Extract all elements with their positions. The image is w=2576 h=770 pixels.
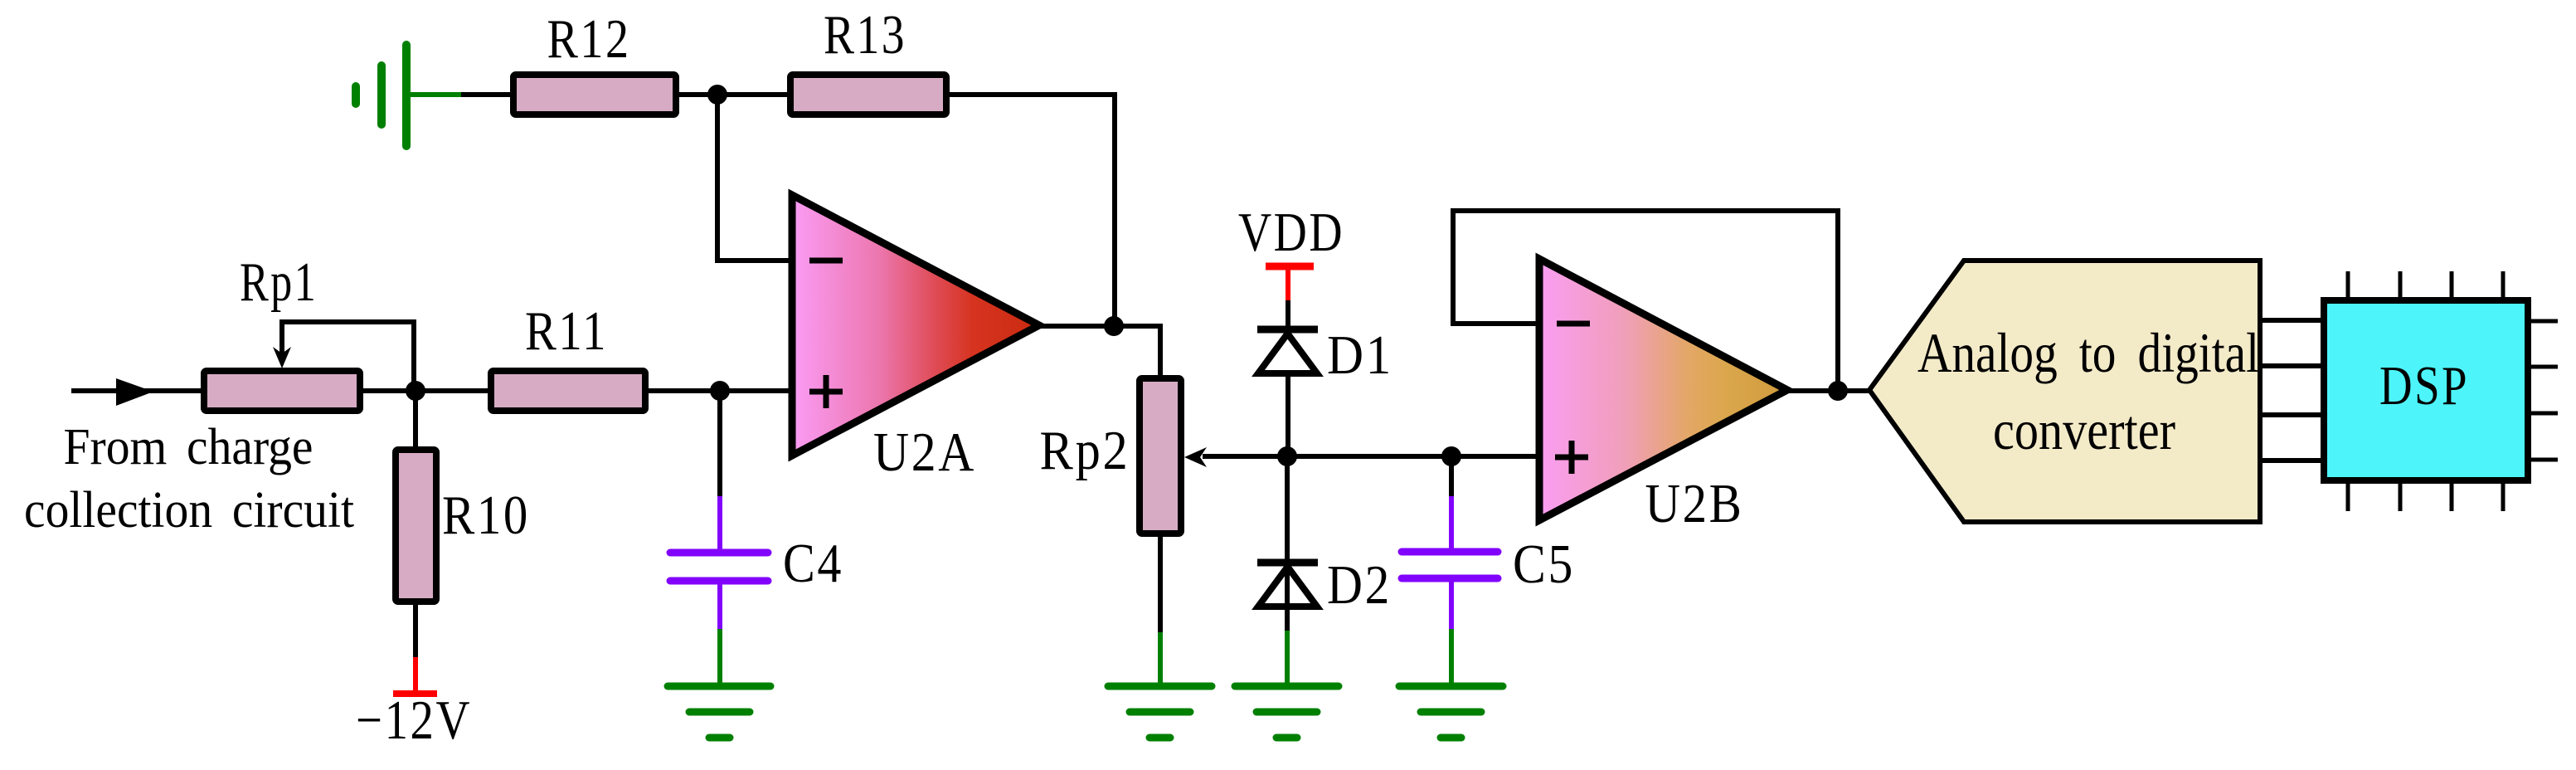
wire clamp node through D2 to ground [1285, 456, 1290, 634]
wire node E down to C5 [1449, 456, 1454, 499]
resistor R13 [790, 75, 946, 115]
svg-text:VDD: VDD [1238, 202, 1344, 263]
svg-text:C4: C4 [783, 533, 843, 594]
Rp2 wiper arrow [1184, 447, 1207, 467]
capacitor C4 [670, 496, 768, 632]
wire node to R10 [413, 391, 418, 453]
ADC block [1869, 261, 2260, 522]
svg-text:D2: D2 [1327, 554, 1392, 616]
svg-text:D1: D1 [1327, 324, 1393, 386]
potentiometer Rp1 [204, 371, 360, 411]
op-amp U2A [792, 195, 1039, 456]
resistor R12 [513, 75, 676, 115]
node after R12 [707, 85, 727, 105]
resistor R11 [491, 371, 645, 411]
ground under C4 [668, 629, 770, 738]
wires ADC to DSP [2260, 320, 2324, 461]
U2B feedback wire [1453, 211, 1838, 391]
svg-text:R10: R10 [442, 485, 530, 546]
svg-text:From charge: From charge [64, 419, 313, 475]
input wire [71, 388, 207, 393]
wire D1 to node [1286, 373, 1290, 456]
node D (clamp node) [1277, 446, 1297, 466]
diode D2 [1257, 559, 1318, 567]
svg-text:Analog to digital: Analog to digital [1917, 321, 2259, 384]
wire R11 to U2A non-inverting input [645, 388, 794, 393]
ground under C5 [1399, 629, 1503, 738]
wire U2B output to ADC [1787, 388, 1873, 393]
svg-text:Rp1: Rp1 [240, 251, 318, 313]
svg-text:R13: R13 [824, 4, 906, 66]
svg-text:DSP: DSP [2379, 355, 2469, 417]
svg-text:R11: R11 [525, 300, 608, 362]
wire wiper rail to U2B non-inverting input [1203, 454, 1543, 459]
ground under D2 [1235, 631, 1339, 738]
wire Rp1 to R11 [360, 388, 494, 393]
capacitor C5 [1402, 496, 1498, 632]
wire U2A output [1039, 326, 1160, 378]
ground top-left (rotated, pointing left) [356, 45, 461, 146]
svg-text:−12V: −12V [356, 690, 472, 751]
Rp1 wiper wire [282, 322, 414, 391]
node B (C4 node) [710, 381, 730, 401]
Rp1 wiper arrowhead [273, 347, 291, 368]
svg-text:U2A: U2A [873, 422, 976, 483]
wire node B down to C4 [717, 391, 722, 499]
potentiometer Rp2 [1140, 378, 1181, 534]
DSP pins right [2529, 321, 2558, 460]
output node U2A [1104, 316, 1124, 336]
svg-text:C5: C5 [1513, 534, 1575, 595]
wire node down to U2A inverting input [717, 95, 795, 261]
DSP pins top [2348, 271, 2503, 300]
DSP pins bottom [2348, 481, 2503, 511]
wire Rp2 bottom to ground [1158, 530, 1163, 636]
ground under Rp2 [1108, 632, 1212, 738]
svg-text:collection circuit: collection circuit [24, 482, 354, 539]
wire R13 to output node [946, 95, 1115, 326]
svg-text:U2B: U2B [1645, 473, 1744, 534]
diode D1 [1257, 326, 1318, 334]
node E (C5 node) [1441, 446, 1461, 466]
VDD supply bar [1266, 266, 1314, 300]
wire R10 to -12V [413, 598, 418, 659]
wire VDD to D1 [1286, 300, 1290, 328]
resistor R10 [396, 450, 436, 602]
wire R12 to R13 [676, 92, 790, 97]
input arrowhead [116, 378, 153, 406]
svg-text:Rp2: Rp2 [1040, 420, 1130, 481]
DSP block [2324, 300, 2528, 480]
svg-text:converter: converter [1993, 398, 2175, 461]
node A (Rp1/R10/R11) [406, 381, 425, 401]
wire ground to R12 [461, 92, 513, 97]
op-amp U2B [1539, 259, 1787, 520]
svg-text:R12: R12 [547, 8, 631, 70]
output node U2B [1828, 381, 1848, 401]
-12V supply bar [393, 657, 437, 694]
